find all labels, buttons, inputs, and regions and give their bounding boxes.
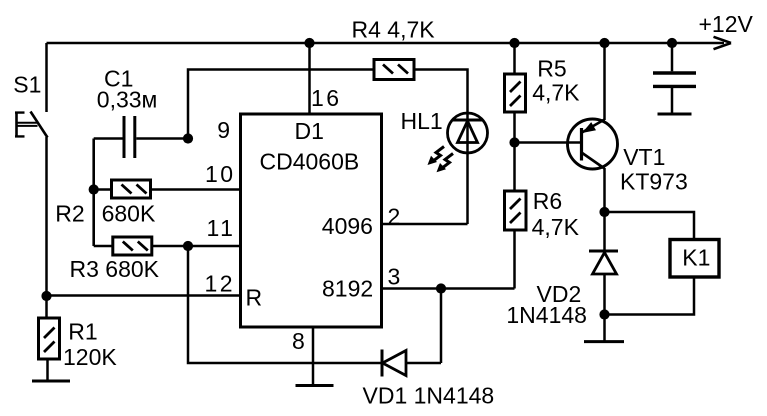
wire pin 8 — [312, 327, 315, 386]
resistor R4 — [374, 60, 414, 80]
resistor R3 — [94, 237, 152, 255]
svg-text:S1: S1 — [13, 72, 41, 98]
wire pin 3 — [382, 287, 515, 290]
junction node pin 9 — [183, 133, 193, 143]
wire R4 to HL1 — [414, 70, 468, 113]
wire pin 12 — [47, 294, 241, 297]
svg-text:R2: R2 — [55, 201, 84, 227]
wire HL1 to pin 2 — [382, 223, 468, 226]
svg-text:R5: R5 — [537, 56, 566, 82]
wire S1 upper lead — [45, 43, 48, 112]
relay K1 — [670, 240, 719, 278]
svg-text:2: 2 — [388, 204, 403, 230]
resistor R1 — [39, 296, 60, 381]
junction node pin16 on rail — [304, 38, 314, 48]
svg-text:+12V: +12V — [699, 11, 754, 37]
wire pin11 node down to VD1 — [188, 246, 382, 363]
light arrows of HL1 — [428, 147, 454, 173]
wire collector down — [603, 168, 606, 212]
diode VD1 — [382, 350, 441, 377]
capacitor C1 — [94, 116, 188, 158]
svg-text:4,7K: 4,7K — [532, 214, 580, 240]
IC D1 — [241, 114, 382, 327]
svg-text:4096: 4096 — [322, 213, 373, 239]
wire VD2 to ground — [603, 315, 606, 342]
svg-text:4,7K: 4,7K — [532, 80, 580, 106]
wire K1 bottom — [605, 277, 695, 315]
wire collector to K1 — [605, 212, 695, 240]
resistor R2 — [94, 180, 151, 198]
capacitor filter — [653, 43, 696, 114]
svg-text:12: 12 — [205, 271, 236, 297]
svg-text:3: 3 — [388, 264, 403, 290]
junction node VT1 base — [509, 137, 519, 147]
wire pin 16 — [308, 43, 311, 114]
svg-text:R3 680K: R3 680K — [70, 256, 160, 282]
wire emitter to rail — [603, 43, 606, 120]
svg-text:8: 8 — [292, 328, 307, 354]
transistor VT1 — [568, 119, 618, 169]
svg-text:680K: 680K — [102, 201, 156, 227]
svg-text:KT973: KT973 — [620, 169, 688, 195]
wire C1/R2/R3 left vertical — [92, 139, 95, 247]
wire pin9 junction up to R4 — [188, 70, 374, 139]
svg-text:K1: K1 — [682, 245, 710, 271]
svg-text:120K: 120K — [63, 344, 117, 370]
svg-text:16: 16 — [311, 85, 342, 111]
diode VD2 — [589, 212, 618, 315]
power arrow +12V — [714, 37, 732, 49]
svg-text:10: 10 — [205, 161, 236, 187]
svg-text:R: R — [246, 285, 263, 311]
svg-text:VT1: VT1 — [623, 144, 665, 170]
wire pin 11 — [152, 245, 241, 248]
junction node R5 top on rail — [509, 38, 519, 48]
svg-text:11: 11 — [207, 215, 236, 241]
ground under R1 — [32, 380, 70, 383]
resistor R6 — [505, 143, 527, 289]
wire pin 10 — [151, 188, 241, 191]
svg-text:1N4148: 1N4148 — [506, 302, 587, 328]
junction node filter cap on rail — [667, 38, 677, 48]
svg-text:HL1: HL1 — [401, 108, 443, 134]
junction node R2 left — [89, 184, 99, 194]
wire S1 lower lead — [45, 137, 48, 296]
switch S1 — [15, 112, 48, 138]
resistor R5 — [505, 43, 526, 143]
svg-text:0,33м: 0,33м — [97, 87, 158, 113]
ground under filter cap — [658, 113, 692, 116]
svg-text:R1: R1 — [68, 319, 97, 345]
svg-text:VD1 1N4148: VD1 1N4148 — [363, 383, 495, 409]
junction node pin 3 — [436, 283, 446, 293]
ground under pin 8 — [296, 384, 334, 387]
svg-text:R6: R6 — [533, 188, 562, 214]
junction node VD2 bottom — [599, 309, 609, 319]
svg-text:D1: D1 — [295, 118, 324, 144]
wire base — [515, 141, 581, 144]
ground under VD2 — [584, 340, 624, 343]
svg-text:8192: 8192 — [322, 276, 373, 302]
LED HL1 — [448, 112, 488, 224]
svg-text:9: 9 — [217, 117, 232, 143]
wire +12V top rail — [47, 42, 725, 45]
wire VD1 up to pin 3 node — [440, 289, 443, 364]
svg-text:R4 4,7K: R4 4,7K — [352, 17, 436, 43]
junction node VT1 emitter on rail — [599, 38, 609, 48]
junction node collector — [599, 207, 609, 217]
junction node pin 11 — [183, 241, 193, 251]
svg-text:CD4060B: CD4060B — [260, 149, 360, 175]
junction node pin12 / R1 — [41, 291, 51, 301]
